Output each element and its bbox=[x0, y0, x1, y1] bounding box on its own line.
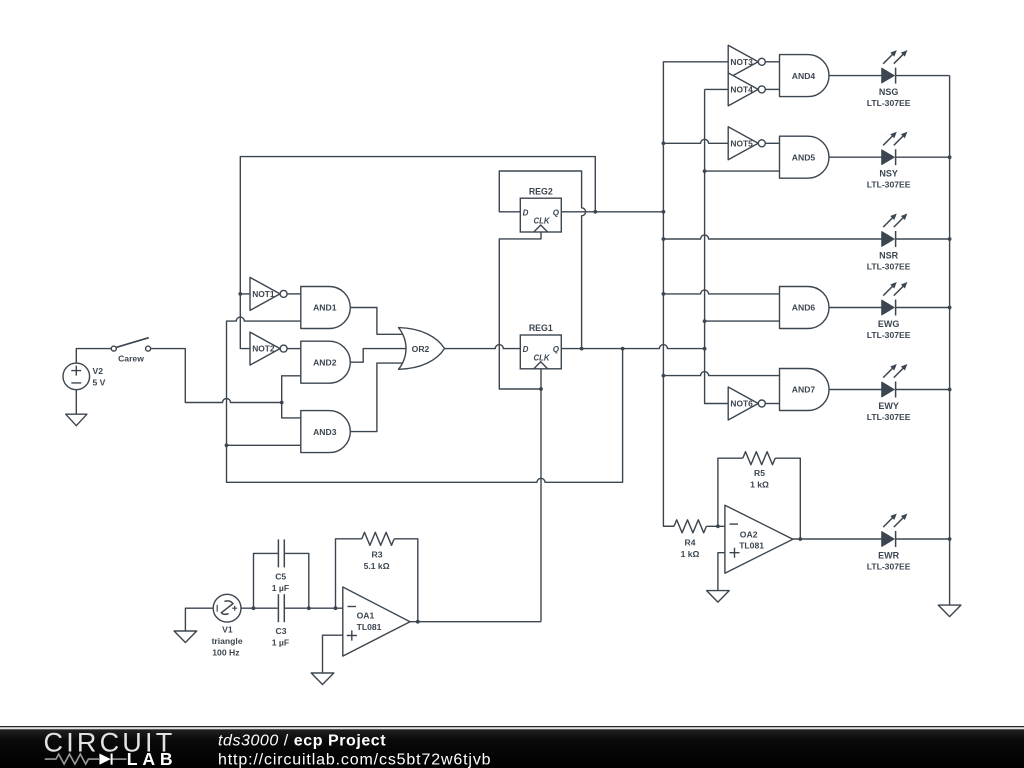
svg-text:NOT4: NOT4 bbox=[730, 85, 753, 95]
node AND3 lower branch bbox=[225, 443, 229, 447]
inverter NOT4 bbox=[728, 73, 765, 106]
node R3 loop junction bbox=[334, 606, 338, 610]
node right bus junction bbox=[948, 537, 952, 541]
inverter NOT5 bbox=[728, 127, 765, 160]
node right bus junction bbox=[948, 237, 952, 241]
logo resistor-diode squiggle bbox=[45, 754, 98, 764]
svg-text:R5: R5 bbox=[754, 468, 765, 478]
svg-text:NOT1: NOT1 bbox=[252, 289, 275, 299]
and-gate AND6 bbox=[780, 287, 830, 329]
and-gate AND1 bbox=[301, 287, 351, 329]
node bus A AND7 branch bbox=[662, 374, 666, 378]
svg-text:C5: C5 bbox=[275, 571, 286, 581]
wire AND5 out bbox=[829, 156, 882, 158]
inverter NOT2 bbox=[250, 332, 287, 365]
LED EWG LTL-307EE bbox=[867, 282, 911, 340]
svg-text:triangle: triangle bbox=[212, 636, 243, 646]
wire NSY cathode to right bus bbox=[896, 156, 950, 158]
wire right bus vertical bbox=[949, 76, 951, 606]
svg-text:NOT2: NOT2 bbox=[252, 344, 275, 354]
svg-text:1 kΩ: 1 kΩ bbox=[681, 549, 700, 559]
wire AND7 out bbox=[829, 389, 882, 391]
inverter NOT3 bbox=[728, 45, 765, 78]
svg-text:CLK: CLK bbox=[533, 353, 550, 362]
switch SW Carew bbox=[111, 338, 150, 364]
node right bus junction bbox=[948, 155, 952, 159]
wire NOT4 out bbox=[766, 88, 780, 90]
svg-text:CLK: CLK bbox=[533, 217, 550, 226]
node bus A NSR branch bbox=[662, 237, 666, 241]
node bus A / REG2.Q corner junction bbox=[662, 210, 666, 214]
wire NOT4 input bbox=[705, 88, 729, 90]
svg-text:R4: R4 bbox=[685, 538, 696, 548]
svg-text:C3: C3 bbox=[276, 626, 287, 636]
wire NSG cathode to right bus bbox=[896, 75, 950, 77]
svg-text:Carew: Carew bbox=[118, 353, 144, 363]
svg-text:D: D bbox=[523, 208, 529, 217]
wire REG2 CLK loop bbox=[499, 232, 541, 389]
node bus A AND6 branch bbox=[662, 292, 666, 296]
op-amp OA2 TL081 bbox=[725, 505, 793, 573]
svg-text:NOT3: NOT3 bbox=[730, 57, 753, 67]
svg-text:100 Hz: 100 Hz bbox=[212, 648, 239, 658]
wire AND6 upper input (hop over bus B) bbox=[663, 290, 779, 294]
svg-text:AND3: AND3 bbox=[313, 427, 337, 437]
wire CLK net down to OA1 output bbox=[540, 389, 542, 622]
svg-text:OA2: OA2 bbox=[740, 529, 758, 539]
wire V2 bottom stub bbox=[75, 390, 77, 415]
svg-text:LTL-307EE: LTL-307EE bbox=[867, 562, 911, 572]
LED NSG LTL-307EE bbox=[867, 50, 911, 108]
capacitor C3 1uF bbox=[272, 594, 289, 647]
wire R5 loop bbox=[718, 458, 743, 526]
wire OA2 output to EWR bbox=[793, 538, 882, 540]
d-flip-flop REG1 bbox=[520, 323, 561, 369]
node NOT1 input junction bbox=[238, 292, 242, 296]
node R5 / OA2 output junction bbox=[798, 537, 802, 541]
wire REG1 CLK stub bbox=[540, 369, 542, 389]
svg-text:EWR: EWR bbox=[878, 550, 899, 560]
voltage source V2 bbox=[63, 363, 106, 390]
node bus B AND6 branch bbox=[703, 319, 707, 323]
wire NSR row (hop over bus B) bbox=[663, 235, 881, 239]
node bus B AND5 branch bbox=[703, 169, 707, 173]
wire AND3 out to OR2 bbox=[350, 363, 402, 432]
wire OR2 out to REG1 D (hop over CLK riser) bbox=[445, 345, 521, 349]
svg-text:OA1: OA1 bbox=[357, 611, 375, 621]
node C right junction bbox=[307, 606, 311, 610]
node REG1.Q / D-loop junction bbox=[580, 347, 584, 351]
op-amp OA1 TL081 bbox=[343, 587, 410, 656]
svg-text:LTL-307EE: LTL-307EE bbox=[867, 262, 911, 272]
svg-text:NOT5: NOT5 bbox=[730, 138, 753, 148]
svg-text:tds3000 / ecp Project: tds3000 / ecp Project bbox=[218, 732, 386, 749]
wire REG2.Q to right bus bbox=[561, 211, 663, 213]
wire V2 top to switch bbox=[76, 349, 111, 364]
ground under V1 bbox=[174, 631, 197, 643]
svg-text:D: D bbox=[523, 345, 529, 354]
wire feeder down to AND3 upper input bbox=[282, 403, 301, 418]
svg-text:OR2: OR2 bbox=[412, 344, 430, 354]
wire switch to AND2/AND3 feeder bbox=[151, 349, 282, 403]
and-gate AND4 bbox=[780, 55, 830, 97]
and-gate AND5 bbox=[780, 136, 829, 178]
wire EWG cathode to right bus bbox=[896, 307, 950, 309]
and-gate AND7 bbox=[780, 369, 830, 411]
and-gate AND3 bbox=[301, 411, 351, 453]
svg-text:5.1 kΩ: 5.1 kΩ bbox=[364, 561, 390, 571]
wire NOT6 out bbox=[766, 403, 780, 405]
node REG1.Q joins bus B bbox=[703, 347, 707, 351]
or-gate OR2 bbox=[399, 328, 445, 370]
resistor R4 1k bbox=[674, 520, 706, 559]
d-flip-flop REG2 bbox=[520, 186, 561, 232]
wire AND1 out to OR2 bbox=[350, 308, 402, 335]
svg-text:REG2: REG2 bbox=[529, 186, 553, 196]
svg-text:AND1: AND1 bbox=[313, 303, 337, 313]
wire AND4 out bbox=[829, 75, 882, 77]
svg-text:LTL-307EE: LTL-307EE bbox=[867, 98, 911, 108]
node CLK junction bbox=[539, 387, 543, 391]
svg-text:LAB: LAB bbox=[127, 749, 178, 768]
wire NOT5 input (hop over bus B) bbox=[663, 139, 728, 143]
wire AND5 lower input bbox=[705, 170, 780, 172]
wire OA1 output to CLK riser bbox=[410, 621, 541, 623]
node right bus junction bbox=[948, 388, 952, 392]
svg-text:AND6: AND6 bbox=[792, 303, 816, 313]
ground OA2 bbox=[707, 591, 730, 603]
svg-text:R3: R3 bbox=[372, 549, 383, 559]
svg-text:5 V: 5 V bbox=[93, 377, 106, 387]
wire R4 right lead bbox=[706, 525, 725, 527]
svg-text:EWY: EWY bbox=[878, 401, 899, 411]
svg-text:TL081: TL081 bbox=[357, 622, 382, 632]
svg-text:NOT6: NOT6 bbox=[730, 399, 753, 409]
svg-text:V2: V2 bbox=[93, 366, 104, 376]
LED EWR LTL-307EE bbox=[867, 514, 911, 572]
svg-text:V1: V1 bbox=[222, 625, 233, 635]
wire AND6 out bbox=[829, 307, 882, 309]
node R3 / OA1 output junction bbox=[416, 620, 420, 624]
svg-text:LTL-307EE: LTL-307EE bbox=[867, 180, 911, 190]
node right bus junction bbox=[948, 306, 952, 310]
svg-text:LTL-307EE: LTL-307EE bbox=[867, 330, 911, 340]
wire AND2 out to OR2 bbox=[350, 349, 406, 363]
and-gate AND2 bbox=[301, 341, 351, 383]
LED NSY LTL-307EE bbox=[867, 132, 911, 190]
LED EWY LTL-307EE bbox=[867, 364, 911, 422]
svg-text:1 µF: 1 µF bbox=[272, 583, 289, 593]
wire NOT3 out bbox=[766, 61, 780, 63]
inverter NOT1 bbox=[250, 277, 287, 310]
svg-text:LTL-307EE: LTL-307EE bbox=[867, 412, 911, 422]
wire REG2.Q left loop (top line to NOT1/NOT2 column) bbox=[240, 157, 595, 349]
svg-text:http://circuitlab.com/cs5bt72w: http://circuitlab.com/cs5bt72w6tjvb bbox=[218, 752, 491, 768]
wire EWR cathode to right bus bbox=[896, 538, 950, 540]
svg-text:AND2: AND2 bbox=[313, 357, 337, 367]
svg-text:Q: Q bbox=[553, 208, 560, 217]
svg-text:NSG: NSG bbox=[879, 87, 899, 97]
node C left junction bbox=[252, 606, 256, 610]
node bus A NOT5 branch bbox=[662, 141, 666, 145]
svg-text:NSR: NSR bbox=[879, 250, 899, 260]
capacitor C5 1uF bbox=[272, 539, 289, 592]
node REG2.Q / left loop riser bbox=[593, 210, 597, 214]
svg-text:Q: Q bbox=[553, 345, 560, 354]
wire V1 right to C network bbox=[241, 607, 278, 609]
wire C5 loop bbox=[254, 553, 279, 608]
wire REG2 D loop from REG1.Q (vertical hop over REG2.Q wire) bbox=[499, 171, 585, 349]
wire NOT1 out bbox=[287, 293, 301, 295]
signal generator V1 triangle 100 Hz bbox=[212, 594, 243, 657]
svg-text:1 kΩ: 1 kΩ bbox=[750, 479, 769, 489]
wire AND3 lower input bbox=[227, 444, 301, 446]
wire AND6 lower input bbox=[705, 320, 780, 322]
svg-text:TL081: TL081 bbox=[739, 540, 764, 550]
wire EWY cathode to right bus bbox=[896, 389, 950, 391]
svg-text:REG1: REG1 bbox=[529, 323, 553, 333]
wire OA2 + input to ground bbox=[718, 553, 725, 591]
inverter NOT6 bbox=[728, 387, 765, 420]
wire to NOT1 input bbox=[240, 293, 250, 295]
node REG1.Q down-leg bbox=[621, 347, 625, 351]
wire NOT2 out bbox=[287, 348, 301, 350]
wire NSR cathode to right bus bbox=[896, 238, 950, 240]
wire C3 right bbox=[285, 607, 343, 609]
wire bus A (REG2.Q) vertical bbox=[663, 62, 728, 212]
ground under V2 bbox=[66, 414, 87, 426]
wire REG1.Q feedback: AND1 lower input bbox=[227, 317, 623, 482]
svg-text:EWG: EWG bbox=[878, 319, 900, 329]
resistor R3 5.1k bbox=[362, 532, 394, 571]
wire OA1 + input to ground bbox=[323, 635, 343, 673]
svg-text:AND7: AND7 bbox=[792, 385, 816, 395]
node R4 / R5 junction bbox=[716, 524, 720, 528]
node switch feeder junction bbox=[280, 401, 284, 405]
svg-text:1 µF: 1 µF bbox=[272, 637, 289, 647]
ground right bus bbox=[938, 605, 961, 617]
svg-text:AND4: AND4 bbox=[792, 71, 816, 81]
resistor R5 1k bbox=[743, 452, 775, 490]
ground OA1 bbox=[311, 673, 334, 685]
LED NSR LTL-307EE bbox=[867, 214, 911, 272]
svg-text:AND5: AND5 bbox=[792, 152, 816, 162]
wire V1 left to ground bbox=[185, 608, 213, 631]
wire R4 left lead (from bus A corner) bbox=[663, 525, 674, 527]
wire REG1.Q to bus B (hop over bus A) bbox=[561, 345, 704, 349]
svg-text:NSY: NSY bbox=[879, 169, 898, 179]
wire NOT5 out bbox=[766, 142, 780, 144]
wire AND7 upper input (hop over bus B) bbox=[663, 372, 779, 376]
wire R3 loop bbox=[336, 539, 362, 608]
wire feeder up to AND2 lower input bbox=[282, 376, 301, 403]
wire bus B (REG1.Q) vertical bbox=[705, 89, 729, 403]
